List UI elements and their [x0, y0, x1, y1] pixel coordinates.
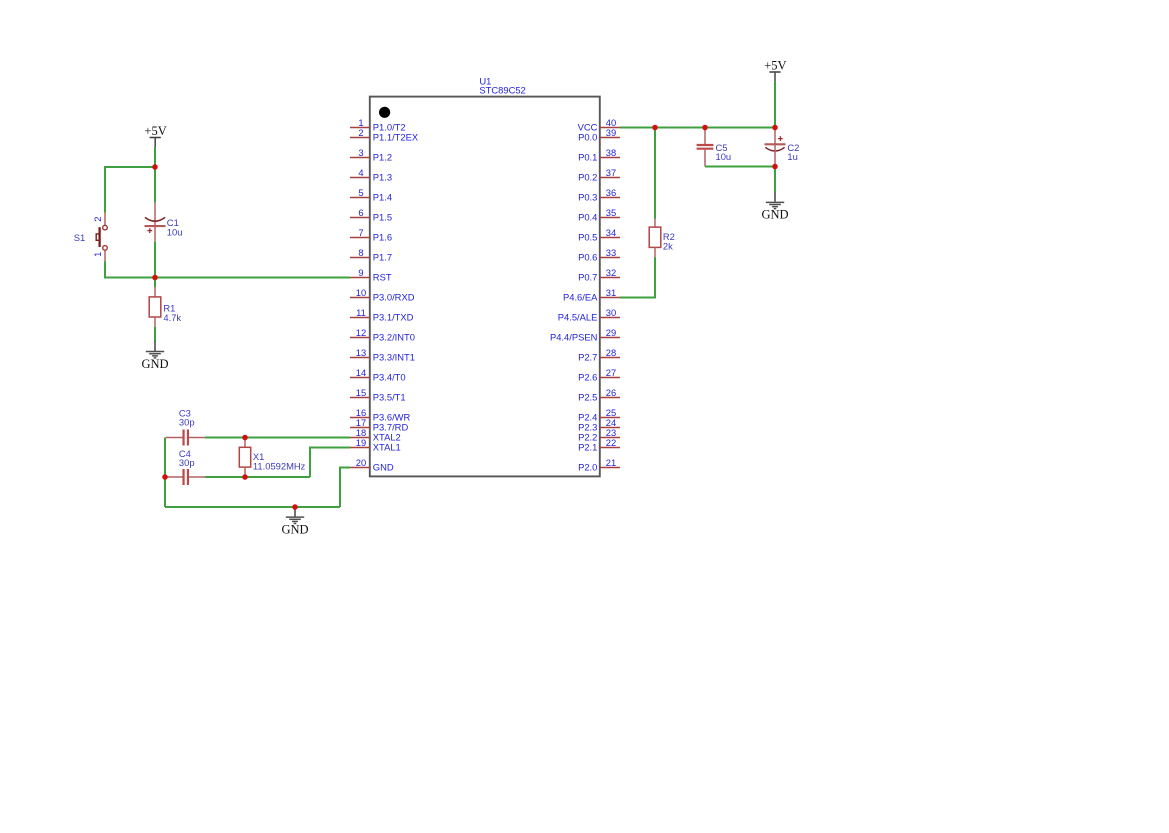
U1 pin 27 P2.6	[578, 367, 620, 383]
svg-text:37: 37	[606, 167, 616, 178]
svg-text:P0.1: P0.1	[578, 152, 597, 163]
svg-text:10u: 10u	[716, 151, 732, 162]
wire node D to XTAL1 pin 19	[310, 448, 350, 478]
svg-text:STC89C52: STC89C52	[479, 85, 525, 96]
svg-text:32: 32	[606, 267, 616, 278]
svg-text:19: 19	[356, 437, 366, 448]
wire node B to R1 top	[154, 278, 156, 288]
C4 value 30p	[179, 457, 195, 468]
svg-text:P3.2/INT0: P3.2/INT0	[373, 332, 415, 343]
svg-text:39: 39	[606, 127, 616, 138]
wire node A to S1 top	[105, 167, 155, 213]
ground GND (below C2)	[761, 192, 788, 221]
svg-text:14: 14	[356, 367, 366, 378]
wire C5 bottom to node E	[705, 166, 775, 168]
svg-text:6: 6	[358, 207, 363, 218]
svg-text:P2.0: P2.0	[578, 462, 597, 473]
U1 pin 24 P2.3	[578, 417, 620, 433]
C5 value 10u	[716, 151, 732, 162]
wire bottom ground rail	[165, 506, 340, 508]
wire left rail C3/C4/GND	[164, 438, 166, 508]
svg-text:26: 26	[606, 387, 616, 398]
wire ground rail to GND pin 20	[340, 468, 350, 508]
C3 value 30p	[179, 417, 195, 428]
wire C4 right to node D	[205, 476, 310, 478]
U1 pin 20 GND	[350, 457, 394, 473]
svg-text:P1.3: P1.3	[373, 172, 392, 183]
svg-text:P1.1/T2EX: P1.1/T2EX	[373, 132, 419, 143]
wire node E to ground	[774, 167, 776, 193]
U1 pin 39 P0.0	[578, 127, 620, 143]
svg-text:10: 10	[356, 287, 366, 298]
U1 pin 2 P1.1/T2EX	[350, 127, 419, 143]
U1 pin 14 P3.4/T0	[350, 367, 406, 383]
svg-text:P0.0: P0.0	[578, 132, 597, 143]
R1 reference label	[163, 303, 175, 314]
IC U1 STC89C52 body	[370, 97, 600, 477]
svg-text:GND: GND	[761, 208, 788, 222]
svg-text:11.0592MHz: 11.0592MHz	[253, 460, 306, 471]
C4 reference label	[179, 448, 191, 459]
svg-text:GND: GND	[373, 462, 394, 473]
U1 value STC89C52	[479, 85, 525, 96]
svg-text:S1: S1	[74, 232, 85, 243]
U1 pin 6 P1.5	[350, 207, 392, 223]
svg-text:1: 1	[92, 252, 103, 257]
svg-text:+5V: +5V	[764, 59, 786, 73]
X1 value 11.0592MHz	[253, 460, 306, 471]
C1 value 10u	[167, 226, 183, 237]
U1 pin 25 P2.4	[578, 407, 620, 423]
svg-text:P3.1/TXD: P3.1/TXD	[373, 312, 414, 323]
svg-text:31: 31	[606, 287, 616, 298]
svg-text:7: 7	[358, 227, 363, 238]
U1 pin 22 P2.1	[578, 437, 620, 453]
capacitor C2 (polarized 1u)	[765, 128, 786, 167]
power symbol +5V (left)	[144, 124, 166, 147]
svg-text:8: 8	[358, 247, 363, 258]
junction left rail at C4	[162, 474, 168, 480]
svg-text:22: 22	[606, 437, 616, 448]
svg-text:GND: GND	[281, 522, 308, 536]
U1 pin 32 P0.7	[578, 267, 620, 283]
wire +5V to node A	[154, 147, 156, 167]
svg-text:P4.6/EA: P4.6/EA	[563, 292, 598, 303]
svg-text:RST: RST	[373, 272, 392, 283]
svg-text:P1.4: P1.4	[373, 192, 392, 203]
wire R1 bottom to ground	[154, 327, 156, 343]
svg-text:2: 2	[358, 127, 363, 138]
U1 pin 8 P1.7	[350, 247, 392, 263]
svg-text:10u: 10u	[167, 226, 183, 237]
C2 value 1u	[787, 151, 797, 162]
wire +5V down to VCC rail	[774, 82, 776, 128]
svg-text:P2.1: P2.1	[578, 442, 597, 453]
U1 pin 37 P0.2	[578, 167, 620, 183]
svg-text:P2.6: P2.6	[578, 372, 597, 383]
svg-text:29: 29	[606, 327, 616, 338]
C1 reference label	[167, 217, 179, 228]
svg-text:15: 15	[356, 387, 366, 398]
svg-text:5: 5	[358, 187, 363, 198]
wire node B to RST pin 9	[155, 277, 350, 279]
crystal X1	[239, 438, 250, 478]
svg-text:P3.3/INT1: P3.3/INT1	[373, 352, 415, 363]
svg-text:P0.7: P0.7	[578, 272, 597, 283]
svg-text:2: 2	[92, 216, 103, 221]
capacitor C3 (30p)	[166, 430, 205, 446]
U1 pin 34 P0.5	[578, 227, 620, 243]
junction node A (+5V/C1/S1)	[152, 164, 158, 170]
R2 reference label	[663, 231, 675, 242]
C3 reference label	[179, 407, 191, 418]
junction node E (C5/C2/GND)	[772, 164, 778, 170]
U1 pin 21 P2.0	[578, 457, 620, 473]
svg-text:GND: GND	[141, 357, 168, 371]
svg-text:P2.5: P2.5	[578, 392, 597, 403]
U1 pin 17 P3.7/RD	[350, 417, 408, 433]
svg-text:P2.7: P2.7	[578, 352, 597, 363]
svg-text:P1.2: P1.2	[373, 152, 392, 163]
svg-text:P1.5: P1.5	[373, 212, 392, 223]
U1 pin 13 P3.3/INT1	[350, 347, 415, 363]
svg-text:33: 33	[606, 247, 616, 258]
S1 pin 2 number	[92, 216, 103, 221]
svg-text:P4.4/PSEN: P4.4/PSEN	[550, 332, 597, 343]
U1 pin 36 P0.3	[578, 187, 620, 203]
U1 pin 9 RST	[350, 267, 392, 283]
capacitor C5 (10u)	[697, 128, 714, 167]
svg-text:30p: 30p	[179, 457, 195, 468]
U1 pin 26 P2.5	[578, 387, 620, 403]
svg-text:20: 20	[356, 457, 366, 468]
svg-text:P1.7: P1.7	[373, 252, 392, 263]
U1 pin 7 P1.6	[350, 227, 392, 243]
switch S1	[96, 213, 107, 262]
junction node D (C4/X1/XTAL1)	[242, 474, 248, 480]
U1 pin 35 P0.4	[578, 207, 620, 223]
svg-text:12: 12	[356, 327, 366, 338]
resistor R2	[649, 219, 661, 258]
svg-text:28: 28	[606, 347, 616, 358]
junction VCC/C2/+5V	[772, 125, 778, 131]
svg-text:P3.5/T1: P3.5/T1	[373, 392, 406, 403]
svg-text:21: 21	[606, 457, 616, 468]
junction VCC/C5	[702, 125, 708, 131]
U1 pin 18 XTAL2	[350, 427, 401, 443]
X1 reference label	[253, 451, 264, 462]
svg-text:38: 38	[606, 147, 616, 158]
wire C3 right to XTAL2 pin 18	[205, 437, 350, 439]
U1 pin 29 P4.4/PSEN	[550, 327, 620, 343]
C2 reference label	[787, 142, 799, 153]
S1 pin 1 number	[92, 252, 103, 257]
U1 pin 28 P2.7	[578, 347, 620, 363]
U1 reference label	[479, 75, 491, 86]
wire VCC rail pin 40 to C2	[620, 127, 775, 129]
U1 pin 31 P4.6/EA	[563, 287, 620, 303]
U1 pin 11 P3.1/TXD	[350, 307, 414, 323]
U1 pin 38 P0.1	[578, 147, 620, 163]
U1 pin 30 P4.5/ALE	[558, 307, 620, 323]
svg-text:4: 4	[358, 167, 363, 178]
ground GND (below R1)	[141, 341, 168, 370]
capacitor C4 (30p)	[166, 469, 205, 485]
svg-text:13: 13	[356, 347, 366, 358]
svg-text:P1.6: P1.6	[373, 232, 392, 243]
U1 pin 40 VCC	[578, 117, 620, 133]
U1 pin 4 P1.3	[350, 167, 392, 183]
wire C1 bottom to node B	[154, 242, 156, 278]
S1 reference label	[74, 232, 85, 243]
svg-text:34: 34	[606, 227, 616, 238]
U1 pin 15 P3.5/T1	[350, 387, 406, 403]
C5 reference label	[716, 142, 728, 153]
svg-text:35: 35	[606, 207, 616, 218]
wire node A to C1 top	[154, 167, 156, 202]
U1 pin 33 P0.6	[578, 247, 620, 263]
svg-text:2k: 2k	[663, 241, 673, 252]
U1 pin 19 XTAL1	[350, 437, 401, 453]
U1 pin 16 P3.6/WR	[350, 407, 411, 423]
svg-text:+5V: +5V	[144, 124, 166, 138]
svg-text:XTAL1: XTAL1	[373, 442, 401, 453]
svg-text:P0.5: P0.5	[578, 232, 597, 243]
wire S1 bottom to node B	[105, 261, 155, 277]
U1 pin 1 P1.0/T2	[350, 117, 406, 133]
svg-text:P0.2: P0.2	[578, 172, 597, 183]
svg-text:P4.5/ALE: P4.5/ALE	[558, 312, 598, 323]
wire R2 bottom to pin 31 EA	[620, 257, 655, 297]
U1 pin 10 P3.0/RXD	[350, 287, 415, 303]
svg-text:30p: 30p	[179, 417, 195, 428]
U1 pin 3 P1.2	[350, 147, 392, 163]
svg-text:P0.6: P0.6	[578, 252, 597, 263]
svg-text:P3.0/RXD: P3.0/RXD	[373, 292, 415, 303]
svg-text:27: 27	[606, 367, 616, 378]
svg-text:11: 11	[356, 307, 366, 318]
svg-text:36: 36	[606, 187, 616, 198]
svg-text:3: 3	[358, 147, 363, 158]
svg-text:4.7k: 4.7k	[163, 312, 181, 323]
U1 pin 5 P1.4	[350, 187, 392, 203]
U1 pin 23 P2.2	[578, 427, 620, 443]
ground GND (crystal)	[281, 507, 308, 536]
svg-text:P0.3: P0.3	[578, 192, 597, 203]
resistor R1	[149, 287, 161, 327]
R2 value 2k	[663, 241, 673, 252]
capacitor C1 (polarized 10u)	[145, 202, 166, 241]
svg-text:1u: 1u	[787, 151, 797, 162]
svg-text:9: 9	[358, 267, 363, 278]
svg-text:30: 30	[606, 307, 616, 318]
U1 pin 12 P3.2/INT0	[350, 327, 415, 343]
R1 value 4.7k	[163, 312, 181, 323]
wire VCC rail to R2 top	[654, 128, 656, 219]
junction ground rail (GND symbol)	[292, 504, 298, 510]
junction node C (C3/X1/XTAL2)	[242, 435, 248, 441]
svg-text:P0.4: P0.4	[578, 212, 597, 223]
power symbol +5V (right)	[764, 59, 786, 82]
junction node B (S1/C1/R1/RST)	[152, 275, 158, 281]
svg-text:P3.4/T0: P3.4/T0	[373, 372, 406, 383]
junction VCC/R2	[652, 125, 658, 131]
